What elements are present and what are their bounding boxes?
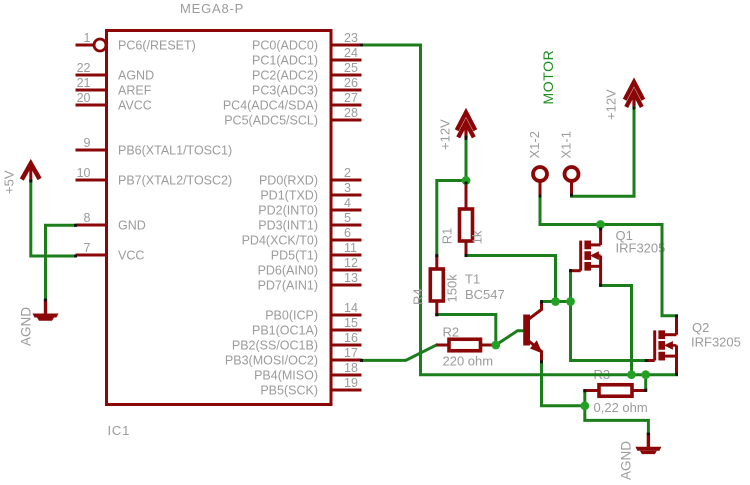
pin 4 (PD2(INT0)) right stub xyxy=(258,196,361,218)
wire X1-2 down and across to MOSFET drains xyxy=(540,196,662,225)
svg-text:19: 19 xyxy=(344,376,358,390)
resistor R1 1k (vertical) xyxy=(440,181,485,257)
wire gate net down and right to Q2 gate xyxy=(571,302,647,361)
svg-text:IC1: IC1 xyxy=(108,423,131,438)
pin 9 (PB6(XTAL1/TOSC1)) left stub xyxy=(76,136,233,158)
svg-text:+5V: +5V xyxy=(2,170,17,194)
pin 8 (GND) left stub xyxy=(76,211,146,233)
connector pad X1-2 xyxy=(527,131,547,197)
wire net PC0/ADC0: pin 23 right, down, across bottom to Q2 source xyxy=(362,45,677,375)
svg-text:6: 6 xyxy=(344,226,351,240)
svg-text:16: 16 xyxy=(344,331,358,345)
svg-text:VCC: VCC xyxy=(118,249,144,263)
svg-text:PB3(MOSI/OC2): PB3(MOSI/OC2) xyxy=(225,354,318,368)
wire gate net horizontal (T1 collector row) xyxy=(542,300,571,303)
pin 13 (PD7(AIN1)) right stub xyxy=(258,271,362,293)
pin 12 (PD6(AIN0)) right stub xyxy=(258,256,362,278)
pin 25 (PC2(ADC2)) right stub xyxy=(252,61,362,83)
svg-text:PC3(ADC3): PC3(ADC3) xyxy=(252,84,318,98)
AGND ground symbol (bottom right, below R3/T1 net) xyxy=(619,433,662,480)
svg-text:21: 21 xyxy=(77,76,91,90)
pin 17 (PB3(MOSI/OC2)) right stub xyxy=(225,346,362,368)
svg-text:PB7(XTAL2/TOSC2): PB7(XTAL2/TOSC2) xyxy=(118,174,232,188)
svg-text:26: 26 xyxy=(344,76,358,90)
svg-text:PB4(MISO): PB4(MISO) xyxy=(254,369,318,383)
resistor R2 220 ohm (horizontal) xyxy=(436,325,495,369)
wire R4 bottom right and down to R2 junction xyxy=(437,315,496,346)
svg-text:5: 5 xyxy=(344,211,351,225)
pin/net connection nubs xyxy=(29,44,678,436)
label for transistor Q1 (under wires) xyxy=(616,228,666,256)
svg-text:PD0(RXD): PD0(RXD) xyxy=(259,174,318,188)
svg-text:18: 18 xyxy=(344,361,358,375)
Q2 gate pin xyxy=(646,359,655,362)
pin 14 (PB0(ICP)) right stub xyxy=(265,301,361,323)
pin 11 (PD5(T1)) right stub xyxy=(271,241,362,263)
svg-text:PC2(ADC2): PC2(ADC2) xyxy=(252,69,318,83)
pin 22 (AGND) left stub xyxy=(76,61,155,83)
resistor R3 0,22 ohm (horizontal) xyxy=(585,385,648,415)
junction Q1 source to sense xyxy=(627,370,636,379)
pin 26 (PC3(ADC3)) right stub xyxy=(252,76,362,98)
svg-text:GND: GND xyxy=(118,219,146,233)
pin 20 (AVCC) left stub xyxy=(76,91,152,113)
svg-text:PC1(ADC1): PC1(ADC1) xyxy=(252,54,318,68)
wire R3 left pin up to AGND node xyxy=(583,391,586,406)
svg-text:PB0(ICP): PB0(ICP) xyxy=(265,309,318,323)
svg-text:PD5(T1): PD5(T1) xyxy=(271,249,318,263)
svg-text:13: 13 xyxy=(344,271,358,285)
connector pad X1-1 xyxy=(559,131,579,196)
pin 15 (PB1(OC1A)) right stub xyxy=(252,316,362,338)
svg-text:PD2(INT0): PD2(INT0) xyxy=(258,204,318,218)
junction R3 to sense xyxy=(641,370,650,379)
svg-text:PD7(AIN1): PD7(AIN1) xyxy=(258,279,318,293)
wire +12V left down to junction above R1 xyxy=(465,137,468,181)
pin 7 (VCC) left stub xyxy=(76,241,145,263)
svg-text:28: 28 xyxy=(344,106,358,120)
wire pin 17 PB3 to R2 (with diagonal) xyxy=(362,345,437,360)
pin 27 (PC4(ADC4/SDA)) right stub xyxy=(223,91,362,113)
svg-text:17: 17 xyxy=(344,346,358,360)
wire gate net up to Q1 gate xyxy=(569,271,572,302)
AGND ground symbol (left, below pin 8 GND) xyxy=(19,299,59,346)
+12V supply arrow (left, above R1) xyxy=(438,112,476,150)
svg-text:PC4(ADC4/SDA): PC4(ADC4/SDA) xyxy=(223,99,318,113)
svg-text:IRF3205: IRF3205 xyxy=(691,335,741,350)
svg-text:24: 24 xyxy=(344,46,358,60)
svg-text:1k: 1k xyxy=(470,230,485,244)
pin 2 (PD0(RXD)) right stub xyxy=(259,166,362,188)
svg-text:0,22 ohm: 0,22 ohm xyxy=(594,400,648,415)
svg-text:22: 22 xyxy=(77,61,91,75)
transistor Q1 IRF3205 (N-MOSFET) xyxy=(571,226,601,285)
wire R2 junction diagonal to T1 base xyxy=(496,331,524,345)
svg-text:27: 27 xyxy=(344,91,358,105)
svg-text:AVCC: AVCC xyxy=(118,99,152,113)
svg-text:PB5(SCK): PB5(SCK) xyxy=(260,384,318,398)
pin 28 (PC5(ADC5/SCL)) right stub xyxy=(224,106,361,128)
svg-text:R1: R1 xyxy=(440,228,455,245)
svg-text:Q2: Q2 xyxy=(692,320,709,335)
IC U1 IC1 MEGA8-P body xyxy=(107,31,332,405)
svg-text:AREF: AREF xyxy=(118,84,152,98)
svg-text:AGND: AGND xyxy=(19,307,34,346)
wire junction to R4 top xyxy=(437,181,466,257)
svg-text:11: 11 xyxy=(344,241,357,255)
svg-text:PB6(XTAL1/TOSC1): PB6(XTAL1/TOSC1) xyxy=(118,144,232,158)
svg-text:R4: R4 xyxy=(411,288,426,305)
wire +5V to VCC pin 7 xyxy=(31,181,76,256)
Q1 gate pin xyxy=(571,269,581,272)
+5V supply arrow xyxy=(2,164,40,195)
svg-text:PB1(OC1A): PB1(OC1A) xyxy=(252,324,318,338)
svg-text:7: 7 xyxy=(84,241,91,255)
svg-text:PD1(TXD): PD1(TXD) xyxy=(260,189,318,203)
svg-text:MOTOR: MOTOR xyxy=(540,50,556,105)
svg-text:PD6(AIN0): PD6(AIN0) xyxy=(258,264,318,278)
svg-text:PD3(INT1): PD3(INT1) xyxy=(258,219,318,233)
svg-text:12: 12 xyxy=(344,256,358,270)
svg-text:X1-1: X1-1 xyxy=(559,131,574,158)
pin 24 (PC1(ADC1)) right stub xyxy=(252,46,362,68)
junction R1/+12V/R4 xyxy=(462,176,471,185)
wire X1-1 down right and up to +12V xyxy=(572,108,635,197)
wire Q1 source down to sense net xyxy=(601,286,632,375)
junction R1 to gate net xyxy=(551,297,560,306)
svg-text:150k: 150k xyxy=(445,274,460,303)
svg-text:23: 23 xyxy=(344,31,358,45)
transistor Q2 IRF3205 (N-MOSFET) xyxy=(646,316,741,375)
svg-text:15: 15 xyxy=(344,316,358,330)
svg-text:X1-2: X1-2 xyxy=(527,131,542,158)
collector xyxy=(528,302,542,321)
svg-text:PC5(ADC5/SCL): PC5(ADC5/SCL) xyxy=(224,114,318,128)
svg-text:MEGA8-P: MEGA8-P xyxy=(180,1,244,16)
svg-text:2: 2 xyxy=(344,166,351,180)
svg-text:PC6(/RESET): PC6(/RESET) xyxy=(118,39,196,53)
svg-text:1: 1 xyxy=(84,31,91,45)
svg-text:+12V: +12V xyxy=(604,89,619,120)
svg-text:AGND: AGND xyxy=(619,441,634,480)
junction R2/R4/base xyxy=(491,341,500,350)
pin 21 (AREF) left stub xyxy=(76,76,152,98)
transistor T1 BC547 (NPN) xyxy=(465,272,543,363)
pin 1 (PC6(/RESET)) left stub xyxy=(76,31,196,53)
svg-text:9: 9 xyxy=(84,136,91,150)
pin 18 (PB4(MISO)) right stub xyxy=(254,361,361,383)
wire AGND node down right to ground symbol xyxy=(585,406,649,434)
svg-text:BC547: BC547 xyxy=(465,287,505,302)
svg-text:10: 10 xyxy=(77,166,91,180)
pin 5 (PD3(INT1)) right stub xyxy=(258,211,361,233)
+12V supply arrow (right, above X1-1) xyxy=(604,82,644,120)
svg-text:AGND: AGND xyxy=(118,69,154,83)
pin 6 (PD4(XCK/T0)) right stub xyxy=(242,226,362,248)
svg-text:220 ohm: 220 ohm xyxy=(443,354,494,369)
svg-text:T1: T1 xyxy=(465,272,480,287)
svg-text:IRF3205: IRF3205 xyxy=(616,241,666,256)
wire R1 bottom right then down to gate net xyxy=(466,256,556,302)
svg-text:3: 3 xyxy=(344,181,351,195)
junction emitter/R3/ground xyxy=(580,401,589,410)
svg-text:14: 14 xyxy=(344,301,358,315)
resistor R4 150k (vertical) xyxy=(411,255,460,315)
svg-text:8: 8 xyxy=(84,211,91,225)
svg-text:PD4(XCK/T0): PD4(XCK/T0) xyxy=(242,234,318,248)
wire GND pin 8 to AGND xyxy=(46,225,76,300)
pin 23 (PC0(ADC0)) right stub xyxy=(252,31,362,53)
svg-text:25: 25 xyxy=(344,61,358,75)
pin 10 (PB7(XTAL2/TOSC2)) left stub xyxy=(76,166,233,188)
pin 16 (PB2(SS/OC1B)) right stub xyxy=(232,331,362,353)
junction Q1 drain xyxy=(596,220,605,229)
junction gate net split xyxy=(566,297,575,306)
svg-text:R2: R2 xyxy=(443,325,460,340)
wire drain net down to Q2 drain xyxy=(662,225,677,316)
wire T1 emitter down to AGND node xyxy=(542,362,585,406)
svg-text:PC0(ADC0): PC0(ADC0) xyxy=(252,39,318,53)
svg-text:4: 4 xyxy=(344,196,351,210)
svg-text:20: 20 xyxy=(77,91,91,105)
emitter xyxy=(528,340,542,362)
svg-text:+12V: +12V xyxy=(438,119,453,150)
svg-text:PB2(SS/OC1B): PB2(SS/OC1B) xyxy=(232,339,318,353)
pin 19 (PB5(SCK)) right stub xyxy=(260,376,361,398)
wire R3 right pin up to sense net xyxy=(644,375,647,391)
pin 3 (PD1(TXD)) right stub xyxy=(260,181,361,203)
